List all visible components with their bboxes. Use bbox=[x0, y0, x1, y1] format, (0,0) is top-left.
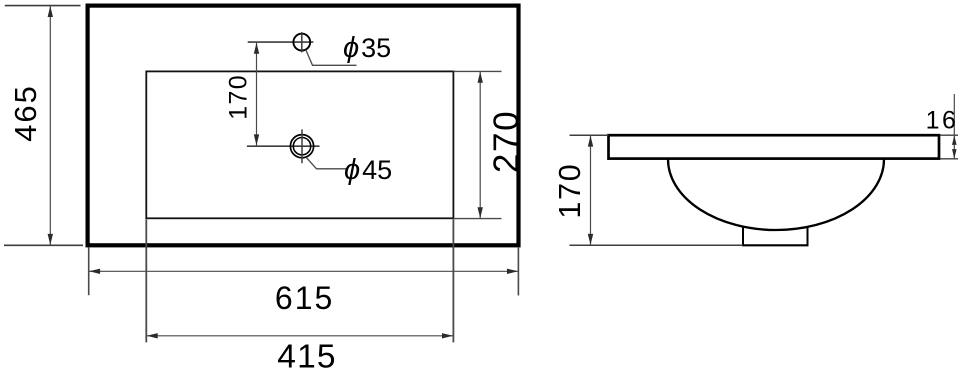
arrow 170R up bbox=[588, 136, 593, 147]
drain bottom edge bbox=[742, 244, 809, 246]
drain left edge bbox=[742, 227, 744, 246]
arrow 170R down bbox=[588, 234, 593, 245]
overflow hole inner circle phi45 bbox=[293, 138, 310, 155]
svg-text:465: 465 bbox=[8, 84, 43, 142]
leader line phi35 bbox=[306, 50, 357, 66]
arrow 270 down bbox=[478, 207, 483, 218]
leader line phi45 bbox=[306, 157, 347, 169]
extension line 270 bottom (inner-rect bottom edge extended right) bbox=[453, 218, 501, 220]
drain right edge bbox=[807, 227, 809, 246]
svg-text:270: 270 bbox=[487, 110, 526, 174]
arrow 415 left bbox=[147, 333, 158, 338]
615 right extension line bbox=[517, 247, 519, 296]
dimension line 270 bbox=[479, 72, 481, 218]
170 (hole spacing) top extension / centreline through hole 35 bbox=[248, 41, 314, 43]
overflow hole outer circle phi45 bbox=[290, 135, 313, 158]
svg-text:170: 170 bbox=[225, 74, 253, 120]
phi35 vertical centreline bbox=[301, 32, 303, 52]
svg-text:16: 16 bbox=[926, 106, 958, 134]
arrow 16 up bbox=[952, 135, 957, 145]
svg-text:ϕ45: ϕ45 bbox=[344, 154, 392, 186]
svg-text:170: 170 bbox=[553, 163, 587, 219]
16 bottom extension line bbox=[940, 158, 958, 160]
extension line 270 top (inner-rect top edge extended right) bbox=[453, 70, 501, 72]
415 right extension line bbox=[452, 220, 454, 343]
bowl profile (half ellipse) bbox=[668, 159, 884, 230]
465 bottom extension line bbox=[4, 244, 83, 246]
svg-text:ϕ35: ϕ35 bbox=[343, 32, 391, 64]
inner rectangle (bowl opening) bbox=[146, 71, 453, 218]
16 top extension line bbox=[940, 134, 958, 136]
deck / countertop rectangle bbox=[609, 135, 940, 158]
dimension line 16 bbox=[953, 94, 955, 159]
arrow 170L up bbox=[254, 43, 259, 54]
arrow 615 left bbox=[89, 269, 100, 274]
dimension line 170 left view bbox=[256, 43, 258, 146]
170 bottom extension line (drain bottom extended left) bbox=[570, 244, 744, 246]
arrow 270 up bbox=[478, 72, 483, 83]
arrow 615 right bbox=[507, 269, 518, 274]
465 top extension line bbox=[5, 5, 81, 7]
dimension line 415 bbox=[146, 335, 453, 337]
arrow 170L down bbox=[254, 134, 259, 145]
arrow 465 up bbox=[48, 6, 53, 17]
615 left extension line (outer rect left edge extended down) bbox=[88, 247, 90, 295]
phi45 vertical centreline bbox=[301, 129, 303, 163]
dimension line 465 bbox=[49, 6, 51, 246]
arrow 465 down bbox=[48, 234, 53, 245]
dimension line 170 right view bbox=[590, 136, 592, 245]
faucet hole circle phi35 bbox=[293, 34, 310, 51]
arrow 16 down bbox=[952, 149, 957, 159]
svg-text:615: 615 bbox=[275, 280, 334, 316]
415 left extension line (inner rect left edge extended down) bbox=[145, 220, 147, 343]
arrow 415 right bbox=[442, 333, 453, 338]
170 bottom extension / centreline through hole 45 bbox=[247, 145, 320, 147]
svg-text:415: 415 bbox=[277, 338, 337, 373]
dimension line 615 bbox=[89, 270, 519, 272]
outer rectangle (basin outer rim, thick outline) bbox=[88, 6, 519, 246]
170 top extension line (deck top extended left) bbox=[570, 134, 609, 136]
